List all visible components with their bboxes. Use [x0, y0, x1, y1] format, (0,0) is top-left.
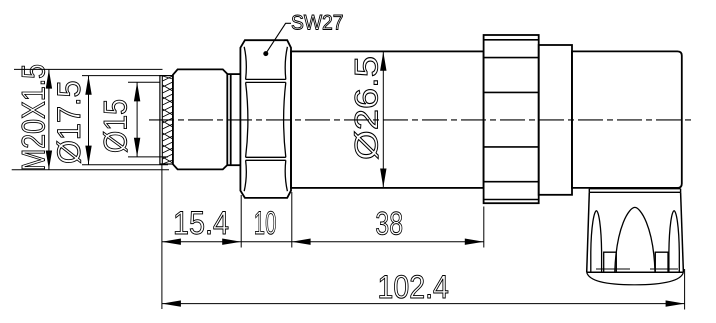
gland left claw petal — [591, 211, 602, 272]
Ø17.5 dimension line — [88, 76, 90, 165]
hex nut SW27 outline — [240, 40, 291, 198]
SW27 leader — [266, 23, 291, 53]
thread hatch texture — [163, 76, 173, 164]
coupling ring (ribbed) — [484, 35, 539, 203]
cable gland flange — [589, 189, 680, 193]
gland center petal — [615, 207, 655, 272]
gland left slot — [604, 252, 617, 272]
Ø17.5 extension lines — [82, 75, 161, 77]
gland bottom dome — [587, 272, 684, 285]
dimension line 15.4 / 10 / 38 — [162, 241, 484, 243]
rear collar — [539, 45, 572, 195]
centerline — [149, 119, 692, 121]
dimension line 102.4 — [162, 303, 685, 305]
cable gland body — [587, 192, 684, 272]
Ø26.5 dimension line — [382, 52, 384, 188]
M20X1.5 dimension line — [48, 70, 50, 170]
Ø15 extension lines — [128, 81, 160, 83]
svg-text:38: 38 — [375, 206, 403, 242]
svg-text:102.4: 102.4 — [378, 269, 449, 305]
bottom extension lines — [162, 165, 685, 310]
svg-text:Ø17.5: Ø17.5 — [51, 80, 87, 164]
SW27 dot — [263, 51, 268, 56]
neck between cylinder and hex — [227, 74, 240, 165]
svg-text:10: 10 — [254, 205, 277, 241]
front cylinder M20 — [173, 69, 227, 169]
svg-text:Ø26.5: Ø26.5 — [349, 56, 385, 160]
body Ø26.5 — [291, 51, 484, 188]
M20X1.5 extension lines — [12, 69, 169, 169]
svg-text:M20X1.5: M20X1.5 — [16, 64, 52, 171]
Ø15 dimension line — [136, 82, 138, 156]
gland right claw petal — [669, 211, 679, 272]
ring rib lines — [484, 40, 539, 200]
svg-text:Ø15: Ø15 — [97, 99, 133, 153]
svg-text:SW27: SW27 — [291, 12, 344, 35]
svg-text:15.4: 15.4 — [173, 205, 229, 241]
gland right slot — [655, 252, 668, 272]
rear housing — [572, 51, 682, 188]
gland inner shoulder lines — [596, 268, 678, 270]
thread seal band (hatched) — [160, 76, 173, 164]
hex facet lines — [244, 47, 287, 191]
